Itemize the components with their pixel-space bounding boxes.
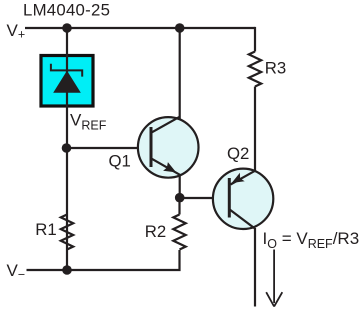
resistor R2 — [173, 215, 185, 250]
svg-text:VREF: VREF — [70, 111, 107, 133]
zener diode symbol (triangle + Z-bar) — [53, 71, 81, 93]
wire: V- bottom rail — [27, 250, 180, 270]
svg-text:IO = VREF/R3: IO = VREF/R3 — [263, 229, 360, 251]
svg-text:LM4040-25: LM4040-25 — [23, 0, 110, 19]
node: VREF / Q1 base tee — [62, 143, 72, 153]
wire: left branch V+ to V- through zener — [66, 28, 68, 270]
resistor R3 — [249, 52, 261, 87]
resistor R1 — [61, 215, 73, 250]
svg-text:V+: V+ — [7, 21, 26, 42]
svg-text:Q1: Q1 — [109, 152, 131, 171]
svg-text:Q2: Q2 — [227, 144, 249, 163]
svg-text:R2: R2 — [145, 222, 166, 241]
zener diode LM4040 box — [41, 56, 93, 107]
svg-text:V−: V− — [7, 261, 26, 282]
wire: Q1 collector to V+ rail — [179, 28, 181, 119]
wire: Q2 base — [180, 197, 230, 199]
wire: top rail corner down to R3 — [254, 27, 256, 52]
wire: Q1 base — [67, 147, 151, 149]
wire: R3 to Q2 emitter — [254, 87, 256, 173]
svg-text:R1: R1 — [35, 220, 56, 239]
wire: V+ top rail — [25, 27, 255, 29]
wire: Q2 collector output — [254, 228, 256, 307]
node: Q1 emitter / R2 / Q2 base junction — [175, 193, 185, 203]
wire: Q1 emitter down to node — [179, 175, 181, 198]
node: V+ / Q1 collector junction — [175, 23, 185, 33]
node: V+ / zener branch junction — [62, 23, 72, 33]
node: V- / R1 junction — [62, 265, 72, 275]
annotation arrow: IO current direction — [266, 250, 282, 307]
svg-text:R3: R3 — [265, 59, 286, 78]
transistor Q2 (PNP) — [213, 169, 273, 229]
wire: R2 top lead — [178, 198, 180, 215]
transistor Q1 (NPN) — [138, 117, 199, 178]
